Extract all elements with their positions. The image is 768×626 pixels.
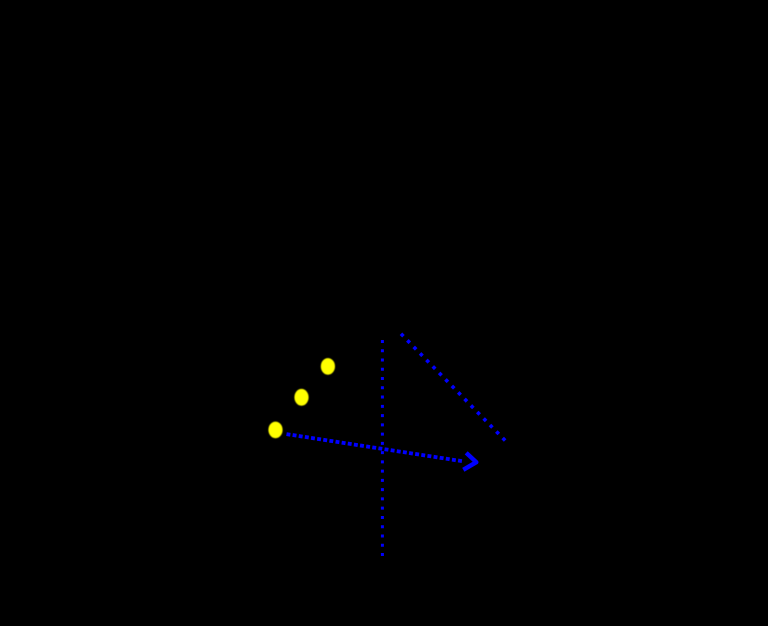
ball position 1 (top)	[321, 358, 335, 375]
arrowhead chevron	[463, 453, 476, 470]
arrow shaft (dotted)	[287, 434, 463, 461]
ball position 2 (middle)	[294, 389, 308, 406]
diagonal dotted guide line	[401, 334, 506, 442]
vertical dotted guide line	[381, 340, 384, 557]
ball position 3 (bottom)	[268, 422, 282, 439]
